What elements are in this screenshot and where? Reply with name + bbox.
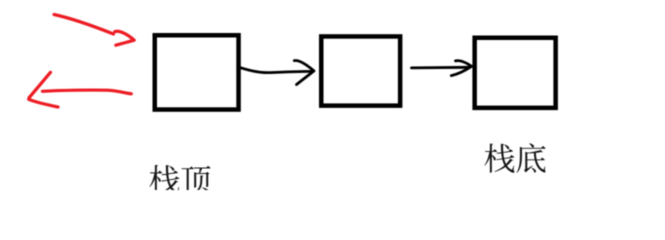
- stack node box 2 (middle): [321, 36, 400, 105]
- pointer arrow 1 (box1 to box2): [241, 60, 314, 84]
- red pop arrow (bottom-left, pointing left): [29, 72, 132, 107]
- label 栈底 (stack bottom, below box 3): [484, 143, 545, 172]
- label 栈顶 (stack top, below box 1): [149, 165, 210, 194]
- stack node box 3 (bottom of stack): [475, 38, 556, 108]
- stack node box 1 (top of stack): [155, 35, 239, 109]
- pointer arrow 2 (box2 to box3): [412, 61, 472, 76]
- red push arrow (top-left, pointing right): [54, 15, 134, 46]
